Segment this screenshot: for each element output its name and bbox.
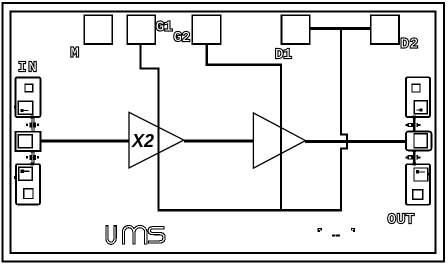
bond pad D1	[281, 15, 309, 44]
wire RF input	[41, 140, 130, 143]
wire D bias drop with crossover jog	[341, 27, 347, 211]
svg-text:IN: IN	[18, 60, 39, 76]
bond pad D2	[371, 15, 399, 44]
via airbridge IN top	[26, 118, 39, 133]
wire G2 bias	[207, 45, 281, 210]
alignment marks bottom right	[318, 228, 356, 237]
ground pad OUT bottom	[406, 164, 430, 205]
svg-text:D2: D2	[401, 37, 419, 53]
svg-text:G1: G1	[156, 20, 173, 36]
wire RF interstage	[184, 139, 254, 142]
svg-text:X2: X2	[131, 131, 154, 151]
wire G1 bias	[141, 45, 159, 210]
signal pad OUT	[406, 132, 431, 151]
svg-text:M: M	[71, 46, 79, 62]
ground pad OUT top	[406, 77, 431, 118]
ground pad IN top	[14, 77, 41, 118]
bond pad M	[84, 15, 112, 44]
via airbridge IN bottom	[26, 150, 39, 166]
svg-text:OUT: OUT	[388, 212, 416, 228]
logo UMS	[107, 225, 164, 245]
via airbridge OUT bottom	[406, 149, 421, 165]
amplifier stage 1 triangle	[129, 112, 184, 168]
wire RF output	[305, 140, 407, 143]
wire D1-D2 interconnect	[310, 27, 371, 30]
svg-text:G2: G2	[174, 30, 191, 46]
wire bottom bias rail	[158, 209, 343, 212]
bond pad G1	[127, 15, 155, 44]
amplifier stage 2 triangle	[253, 113, 305, 168]
svg-text:D1: D1	[275, 47, 292, 63]
signal pad IN	[15, 132, 40, 151]
bond pad G2	[192, 15, 220, 44]
ground pad IN bottom	[14, 164, 40, 204]
via airbridge OUT top	[406, 118, 421, 133]
